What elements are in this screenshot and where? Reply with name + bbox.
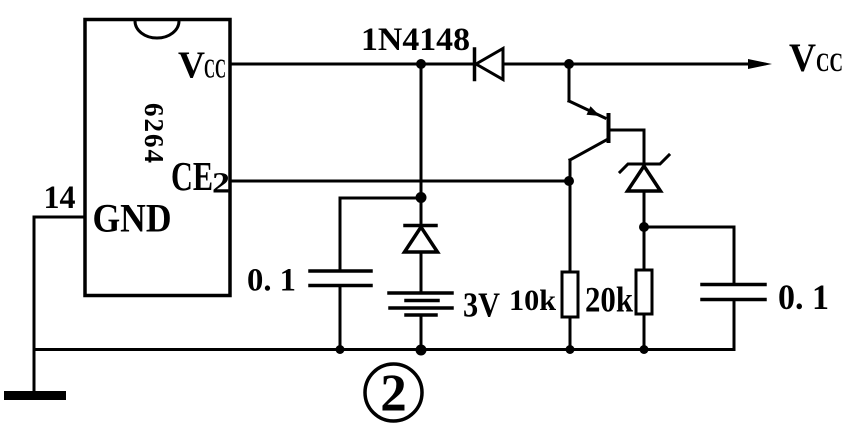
svg-text:6264: 6264: [139, 103, 169, 165]
svg-text:14: 14: [44, 180, 76, 216]
svg-text:GND: GND: [93, 196, 172, 241]
svg-text:1N4148: 1N4148: [361, 22, 470, 58]
svg-text:V: V: [789, 35, 816, 80]
svg-text:10k: 10k: [509, 284, 556, 317]
svg-text:2: 2: [380, 365, 407, 423]
svg-text:CE: CE: [171, 153, 213, 199]
svg-text:2: 2: [212, 167, 230, 200]
svg-text:20k: 20k: [585, 280, 633, 320]
svg-text:0. 1: 0. 1: [778, 277, 829, 317]
svg-text:V: V: [178, 45, 206, 87]
svg-text:0. 1: 0. 1: [247, 263, 296, 299]
svg-text:CC: CC: [816, 48, 843, 77]
svg-text:CC: CC: [204, 54, 226, 84]
svg-text:3V: 3V: [463, 286, 500, 325]
